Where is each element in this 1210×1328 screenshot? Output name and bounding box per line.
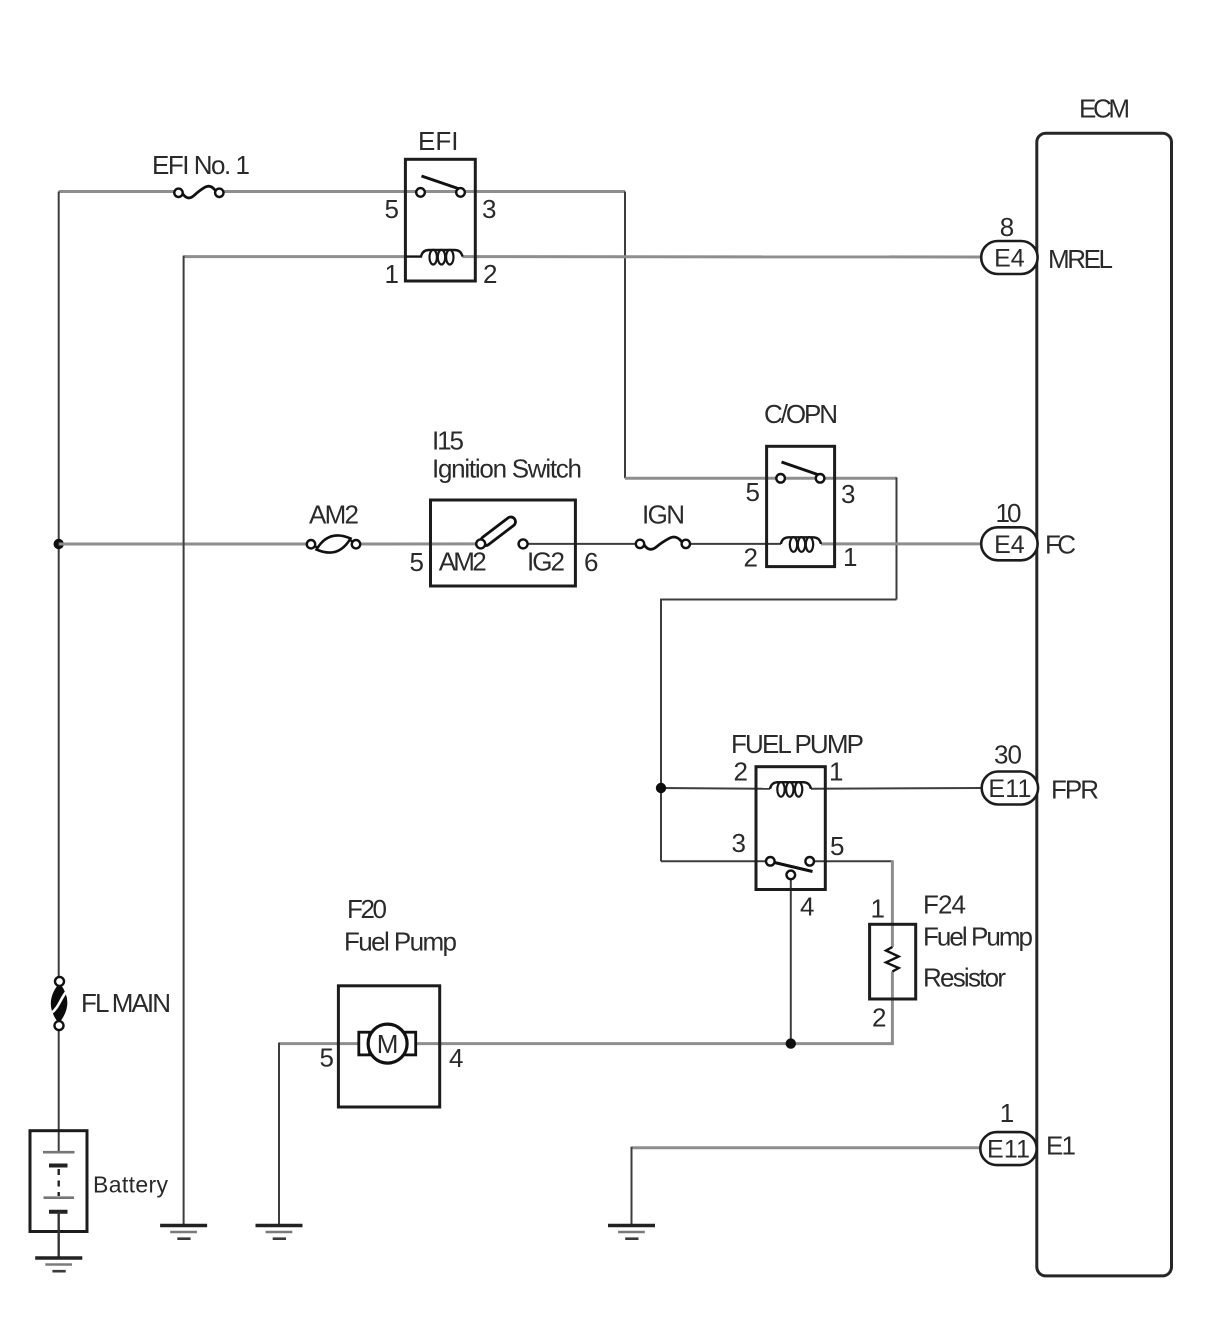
relay C/OPN box (767, 446, 835, 566)
wire ECM E1 to ground horizontal (632, 1146, 982, 1149)
wire down to fuel pump relay coil node (660, 599, 662, 789)
svg-text:1: 1 (829, 757, 843, 787)
ignition switch I15 box (431, 500, 576, 586)
resistor F24 zigzag (886, 947, 899, 972)
svg-text:AM2: AM2 (309, 500, 359, 530)
battery dashed link (58, 1169, 60, 1196)
svg-text:5: 5 (320, 1043, 334, 1073)
relay C/OPN switch contact 3 (816, 474, 825, 483)
svg-text:5: 5 (746, 477, 760, 507)
ignition switch contact IG2 (519, 539, 528, 548)
relay FUEL PUMP switch contact 4 (787, 871, 796, 880)
wire FUEL PUMP relay pin 5 to F24 resistor (810, 860, 893, 862)
wire C/OPN switch crossing pin 3 to corner x=896.5 (781, 477, 897, 480)
wire IGN fuse to C/OPN coil pin 2 (686, 543, 781, 545)
svg-text:3: 3 (482, 194, 496, 224)
junction dot motor line (786, 1038, 796, 1048)
svg-text:5: 5 (385, 194, 399, 224)
relay C/OPN switch blade (782, 462, 821, 476)
svg-text:2: 2 (483, 259, 497, 289)
wire junction to FUEL PUMP relay pin 2 (661, 787, 770, 790)
ground EFI relay coil (160, 1226, 207, 1239)
svg-text:FUEL PUMP: FUEL PUMP (731, 729, 864, 759)
battery plate long bottom (44, 1196, 75, 1199)
battery B box (30, 1131, 87, 1232)
svg-text:6: 6 (584, 547, 598, 577)
fuse IGN (636, 537, 690, 549)
resistor F24 box (870, 924, 916, 999)
svg-text:1: 1 (1000, 1098, 1014, 1128)
wire F20 pin 5 down to ground (278, 1043, 280, 1224)
relay EFI coil (406, 250, 463, 265)
svg-text:Ignition Switch: Ignition Switch (432, 454, 582, 484)
wire left vertical battery feed (58, 192, 60, 982)
svg-text:I15: I15 (432, 426, 464, 456)
relay EFI box (405, 159, 475, 281)
motor circle M (368, 1024, 407, 1063)
wire AM2 feed horizontal to fuse (59, 543, 310, 546)
ground battery (35, 1258, 82, 1271)
svg-text:E11: E11 (987, 1136, 1030, 1164)
svg-text:2: 2 (744, 543, 758, 573)
connector E11 FPR oval (982, 772, 1038, 805)
svg-text:EFI No. 1: EFI No. 1 (152, 150, 250, 180)
svg-text:Resistor: Resistor (923, 963, 1006, 993)
wire EFI relay coil ground branch (to MREL line) (184, 255, 406, 258)
ground ECM E1 (608, 1226, 655, 1239)
relay FUEL PUMP box (756, 767, 825, 890)
svg-text:1: 1 (843, 542, 857, 572)
svg-text:EFI: EFI (418, 126, 458, 156)
svg-text:FC: FC (1045, 530, 1076, 560)
junction dot at coil branch (656, 783, 666, 793)
wire F24 resistor drop through box (891, 860, 894, 947)
wire horizontal to x=661 (661, 599, 897, 601)
relay FUEL PUMP coil (770, 782, 811, 797)
svg-text:30: 30 (994, 740, 1022, 770)
connector E11 E1 oval (980, 1132, 1036, 1165)
svg-text:FL MAIN: FL MAIN (81, 988, 171, 1018)
svg-text:8: 8 (1000, 212, 1014, 242)
svg-text:Fuel Pump: Fuel Pump (923, 922, 1033, 952)
svg-text:5: 5 (410, 547, 424, 577)
ignition switch lever (479, 515, 517, 547)
wire relay pin 4 drop to motor line (790, 875, 792, 1044)
svg-text:Battery: Battery (93, 1172, 169, 1198)
svg-text:F20: F20 (347, 894, 387, 924)
fuse EFI No. 1 (174, 186, 223, 198)
svg-text:2: 2 (872, 1003, 886, 1033)
fuse AM2 (307, 535, 360, 552)
motor brush right (405, 1032, 416, 1055)
wire EFI relay coil pin 2 to ECM MREL (463, 255, 982, 258)
relay FUEL PUMP switch contact 3 (766, 857, 775, 866)
wire FUEL PUMP relay pin 1 to ECM FPR (811, 787, 982, 790)
ignition switch contact AM2 (476, 539, 485, 548)
motor F20 fuel pump box (338, 986, 439, 1107)
battery plate long top (43, 1151, 75, 1154)
wire to FUEL PUMP relay pin 3 (661, 860, 770, 862)
relay FUEL PUMP switch contact 5 (805, 857, 814, 866)
motor brush left (359, 1032, 370, 1055)
wire FL MAIN to battery (58, 1026, 60, 1152)
svg-text:ECM: ECM (1079, 94, 1130, 124)
svg-text:IGN: IGN (642, 500, 685, 530)
relay C/OPN coil (781, 537, 821, 552)
wire EFI coil ground vertical (183, 256, 185, 1224)
svg-text:F24: F24 (923, 890, 966, 920)
svg-text:E4: E4 (994, 531, 1025, 559)
ground fuel pump motor (256, 1226, 303, 1239)
wire node x=625 down to C/OPN pin 5 level (624, 192, 626, 479)
connector E4 FC oval (981, 527, 1037, 560)
wire junction down to pin 3 level (660, 788, 662, 861)
ECM box (1037, 133, 1172, 1276)
battery bottom lead (58, 1212, 60, 1257)
svg-text:4: 4 (449, 1043, 463, 1073)
svg-text:Fuel Pump: Fuel Pump (344, 927, 457, 957)
svg-text:5: 5 (830, 831, 844, 861)
wire C/OPN pin 3 corner down (896, 477, 898, 599)
relay C/OPN switch contact 5 (776, 474, 785, 483)
wire IG2 contact to IGN fuse (523, 543, 640, 545)
svg-text:1: 1 (385, 259, 399, 289)
relay FUEL PUMP switch blade (775, 863, 813, 872)
wire to C/OPN relay pin 5 (625, 477, 781, 480)
wire E1 ground drop (631, 1147, 633, 1224)
svg-text:IG2: IG2 (527, 547, 565, 577)
svg-text:4: 4 (800, 892, 814, 922)
battery plate short bottom (49, 1210, 68, 1214)
connector E4 MREL oval (981, 241, 1037, 274)
svg-text:M: M (377, 1029, 399, 1059)
svg-text:E1: E1 (1046, 1131, 1076, 1161)
svg-text:3: 3 (841, 479, 855, 509)
fusible link FL MAIN (52, 977, 67, 1030)
relay EFI switch blade (422, 176, 462, 190)
battery plate short top (49, 1164, 68, 1168)
wire AM2 fuse to ignition switch AM2 contact (357, 542, 481, 545)
svg-text:E11: E11 (988, 775, 1031, 803)
svg-text:MREL: MREL (1048, 244, 1113, 274)
relay EFI switch contact 5 (416, 188, 425, 197)
svg-text:2: 2 (734, 757, 748, 787)
svg-text:1: 1 (871, 894, 885, 924)
wire fuel pump motor line horizontal (279, 1042, 894, 1045)
svg-text:3: 3 (732, 828, 746, 858)
wire F24 resistor lower lead to pump wire (891, 972, 894, 1045)
wire battery to EFI No.1 fuse (top horizontal) (59, 190, 176, 193)
svg-text:10: 10 (996, 498, 1022, 528)
wire EFI No.1 fuse to EFI relay pin 5 (222, 190, 421, 193)
svg-text:E4: E4 (994, 245, 1025, 273)
wire C/OPN coil pin 1 to ECM FC (821, 542, 982, 545)
wire EFI relay switch crossing to pin 3 and right to node at x=625 (421, 190, 626, 193)
relay EFI switch contact 3 (456, 188, 465, 197)
svg-text:FPR: FPR (1051, 775, 1099, 805)
junction dot AM2 branch (54, 539, 64, 549)
svg-text:AM2: AM2 (439, 547, 487, 577)
svg-text:C/OPN: C/OPN (764, 399, 838, 429)
